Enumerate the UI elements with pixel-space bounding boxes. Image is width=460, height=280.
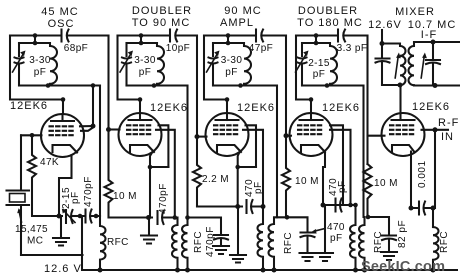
svg-text:470pF: 470pF <box>158 183 169 214</box>
wire coupling stage4-5 <box>366 36 368 165</box>
wire tank1 bottom <box>19 84 100 86</box>
wire top stage2 <box>118 34 170 36</box>
capacitor C1 68pF <box>60 30 62 42</box>
svg-text:3-30: 3-30 <box>134 55 156 66</box>
wire stage1 bottom <box>33 215 62 217</box>
wire plate2 lead <box>139 100 141 121</box>
capacitor 470pF stage4 inline <box>336 199 342 212</box>
wire cathode1 lead <box>59 155 72 216</box>
svg-text:pF: pF <box>34 67 46 78</box>
trimmer 2-15pF stage1 <box>66 210 73 223</box>
wire cathode5 lead <box>410 152 412 209</box>
node plate1 junction <box>61 97 66 102</box>
svg-text:12EK6: 12EK6 <box>237 102 275 114</box>
pin grids2 dashes <box>127 125 153 134</box>
svg-text:RFC: RFC <box>373 231 384 253</box>
wire primary bottom <box>382 84 400 86</box>
wire top stage1 left <box>10 34 61 36</box>
wire tank3 top tie <box>226 36 228 44</box>
pin cathode5 <box>392 145 414 152</box>
svg-text:pF: pF <box>330 233 342 244</box>
IF transformer T1 primary top <box>382 42 400 44</box>
svg-text:TO 90 MC: TO 90 MC <box>132 17 191 29</box>
tube U2 12EK6 <box>150 102 188 114</box>
capacitor secondary tuning <box>426 42 440 86</box>
svg-text:MIXER: MIXER <box>395 6 435 18</box>
wire grid3 tap <box>197 136 207 138</box>
svg-text:12EK6: 12EK6 <box>10 100 48 112</box>
inductor RFC5 <box>433 227 439 270</box>
wire grid5 RF tap <box>422 129 449 131</box>
wire grid1 stubs <box>80 126 93 131</box>
svg-text:pF: pF <box>253 181 264 194</box>
svg-text:3.3 pF: 3.3 pF <box>337 43 368 54</box>
svg-text:2.2 M: 2.2 M <box>202 174 229 185</box>
wire bottom bus <box>83 269 458 271</box>
pin cathode3 <box>217 145 241 152</box>
wire 12.6V stub <box>381 30 383 44</box>
node MIXER labels <box>368 6 456 41</box>
inductor T1 secondary <box>408 42 414 86</box>
ground 82pF <box>381 241 397 261</box>
wire bypass stage2 <box>188 218 222 234</box>
svg-text:470pF: 470pF <box>205 226 216 257</box>
wire grid return 47K top <box>21 134 42 136</box>
svg-text:45 MC: 45 MC <box>41 6 78 18</box>
wire B+ feed stage3 <box>276 86 278 218</box>
tank L1 box top <box>19 42 50 44</box>
svg-text:10 M: 10 M <box>113 191 137 202</box>
pin cathode2 <box>130 145 154 152</box>
svg-text:pF: pF <box>139 67 151 78</box>
capacitor 470pF stage2 inline <box>158 211 178 224</box>
capacitor bypass stage3 <box>301 233 315 238</box>
tank box4 top <box>302 42 330 44</box>
wire grid2 tap <box>109 128 120 130</box>
svg-text:12EK6: 12EK6 <box>412 101 450 113</box>
ground stage4 left <box>317 205 333 261</box>
wire stage2 left edge to plate <box>118 36 141 100</box>
variable capacitor 2-15pF stage4 <box>301 43 303 56</box>
wire 12.6V feed <box>21 216 83 270</box>
capacitor C3 47pF <box>255 30 257 42</box>
svg-text:3-30: 3-30 <box>221 55 243 66</box>
svg-text:470: 470 <box>327 222 345 233</box>
svg-text:MC: MC <box>27 236 43 247</box>
svg-text:15,475: 15,475 <box>15 224 48 235</box>
variable capacitor 3-30pF stage2 <box>125 43 127 56</box>
wire top stage1 right <box>69 34 109 36</box>
svg-text:OSC: OSC <box>48 18 75 30</box>
wire arrow to crystal <box>19 213 21 223</box>
wire secondary bottom <box>414 84 460 86</box>
node 90MC AMPL label <box>220 5 262 29</box>
wire B+ feed stage1 <box>99 86 101 217</box>
inductor RFC1 <box>100 216 106 270</box>
resistor R2 10M <box>105 130 113 218</box>
wire grid4 tap <box>286 135 291 137</box>
svg-text:90 MC: 90 MC <box>224 5 261 17</box>
wire plate5 lead <box>399 85 401 120</box>
wire coupling stage2-3 <box>196 36 198 137</box>
svg-text:AMPL: AMPL <box>220 17 254 29</box>
wire bypass stage3 <box>274 217 308 231</box>
wire RF in line <box>434 130 436 208</box>
pin plate5 bar <box>392 119 415 121</box>
svg-text:47pF: 47pF <box>249 43 273 54</box>
svg-text:10 M: 10 M <box>374 178 398 189</box>
wire grid5 left lead <box>368 135 385 137</box>
svg-text:RFC: RFC <box>283 232 294 254</box>
svg-text:DOUBLER: DOUBLER <box>298 5 358 17</box>
node DOUBLER TO 180MC label <box>297 5 363 29</box>
capacitor 0.001 <box>411 202 433 215</box>
wire coupling stage3-4 <box>285 36 287 136</box>
ground bypass stage2 <box>213 240 229 254</box>
capacitor 82pF <box>382 236 396 241</box>
svg-text:10pF: 10pF <box>166 43 190 54</box>
ground stage3 <box>230 207 246 263</box>
wire tank2 bottom <box>127 84 188 86</box>
svg-text:pF: pF <box>70 191 81 204</box>
wire grid1 feed <box>92 86 94 127</box>
capacitor C4 3.3pF <box>337 30 339 42</box>
svg-text:12.6V: 12.6V <box>368 19 402 31</box>
tube U1 12EK6 <box>10 100 48 112</box>
node watermark <box>361 259 445 275</box>
node 45MC OSC label <box>41 6 78 30</box>
inductor RFC4b <box>359 217 365 270</box>
svg-text:0.001: 0.001 <box>417 160 428 188</box>
svg-text:12EK6: 12EK6 <box>322 102 360 114</box>
wire plate4 lead <box>310 100 312 121</box>
inductor RFC3b <box>269 224 275 270</box>
inductor L4 coil <box>330 43 337 86</box>
inductor RFC3a <box>258 207 264 271</box>
pin plate2 bar <box>129 119 152 121</box>
capacitor primary tuning <box>376 44 390 86</box>
svg-text:IN: IN <box>441 131 454 143</box>
wire top stage4 <box>296 34 338 36</box>
pin cathode1 <box>53 145 78 153</box>
pin plate3 bar <box>216 119 239 121</box>
variable capacitor 3-30pF stage3 <box>212 43 214 56</box>
wire plate3 lead <box>226 100 228 121</box>
crystal Y1 15.475MC <box>7 135 30 255</box>
capacitor 470pF stage3 inline <box>247 200 264 213</box>
svg-text:pF: pF <box>313 69 325 80</box>
wire stage1 left edge to plate <box>10 36 63 100</box>
capacitor bypass stage2 <box>214 235 228 240</box>
ground bypass stage3 <box>300 238 316 262</box>
svg-text:RFC: RFC <box>439 231 450 253</box>
svg-text:I-F: I-F <box>421 29 437 41</box>
capacitor C2 10pF <box>169 30 171 42</box>
tank box2 top <box>127 42 158 44</box>
svg-text:RFC: RFC <box>193 231 204 253</box>
svg-text:47K: 47K <box>40 157 59 168</box>
resistor R5 10M <box>364 164 372 217</box>
tube U4 12EK6 <box>322 102 360 114</box>
wire cathode3 lead <box>238 151 240 207</box>
variable capacitor 3-30pF stage1 <box>18 43 20 56</box>
svg-text:68pF: 68pF <box>64 43 88 54</box>
pin grids5 dashes <box>390 125 416 134</box>
inductor L2 coil <box>157 43 164 86</box>
node 470pF callout stage4 <box>327 222 345 244</box>
inductor RFC2a <box>172 218 178 271</box>
wire arrow primary <box>395 57 398 78</box>
wire cathode2 lead <box>150 151 168 218</box>
pin grids4 dashes <box>298 125 324 134</box>
svg-text:TO 180 MC: TO 180 MC <box>297 17 363 29</box>
resistor R3 2.2M <box>193 137 201 207</box>
tube U5 12EK6 <box>412 101 450 113</box>
wire stage2 bottom <box>109 216 153 218</box>
svg-text:82 pF: 82 pF <box>397 220 408 248</box>
ground stage1 cathode <box>53 216 69 246</box>
svg-text:470pF: 470pF <box>83 176 94 207</box>
pin cathode4 <box>301 145 325 152</box>
resistor R4 10M <box>282 136 290 218</box>
wire 82pF branch <box>368 217 390 234</box>
wire tank4 bottom <box>302 84 364 86</box>
wire tank2 top tie <box>140 36 142 44</box>
wire tank1 top tie <box>34 36 36 44</box>
wire stage3 bottom <box>197 205 242 207</box>
wire screen4 drop <box>330 125 351 205</box>
wire I-F output <box>433 41 459 43</box>
ground stage2 cathode <box>141 218 157 244</box>
inductor RFC4a <box>350 205 355 270</box>
wire RF line to RFC <box>432 208 434 227</box>
wire plate1 lead <box>61 100 64 122</box>
wire secondary top <box>414 41 433 43</box>
wire B+ feed stage2 <box>186 86 188 226</box>
svg-text:12EK6: 12EK6 <box>150 102 188 114</box>
wire arrow secondary <box>421 57 424 78</box>
wire tank3 bottom <box>213 84 277 86</box>
wire stage4 bottom <box>323 204 356 206</box>
svg-text:3-30: 3-30 <box>29 55 51 66</box>
wire screen2 drops <box>156 125 175 217</box>
pin grids1 dashes <box>50 126 76 135</box>
pin plate4 bar <box>300 119 323 121</box>
wire tank4 top tie <box>315 36 317 44</box>
wire stage4 left edge to plate <box>296 36 311 100</box>
inductor L3 coil <box>244 43 251 86</box>
wire cathode4 lead <box>323 153 325 205</box>
capacitor 470pF stage1 <box>78 214 83 219</box>
wire coupling stage1-2 <box>107 36 109 130</box>
wire B+ feed stage4 <box>362 86 364 218</box>
inductor RFC2b <box>182 225 187 270</box>
resistor R1 47K <box>28 135 36 216</box>
wire stage3 left edge to plate <box>204 36 227 100</box>
svg-text:12.6 V: 12.6 V <box>44 263 82 275</box>
inductor T1 primary <box>400 44 406 86</box>
svg-text:pF: pF <box>337 180 348 193</box>
svg-text:DOUBLER: DOUBLER <box>132 5 192 17</box>
pin grids3 dashes <box>214 125 240 134</box>
inductor L1 coil <box>50 43 57 86</box>
svg-text:pF: pF <box>225 67 237 78</box>
svg-text:SeekIC.com: SeekIC.com <box>361 259 445 275</box>
svg-text:R-F: R-F <box>438 117 459 129</box>
wire top stage3 <box>204 34 256 36</box>
tank box3 top <box>213 42 244 44</box>
node DOUBLER TO 90MC label <box>132 5 192 29</box>
svg-text:2-15: 2-15 <box>308 58 330 69</box>
svg-text:RFC: RFC <box>107 237 129 248</box>
pin plate1 bar <box>51 120 74 122</box>
wire screen3 drops <box>243 125 263 206</box>
svg-text:10 M: 10 M <box>295 176 319 187</box>
tube U3 12EK6 <box>237 102 275 114</box>
